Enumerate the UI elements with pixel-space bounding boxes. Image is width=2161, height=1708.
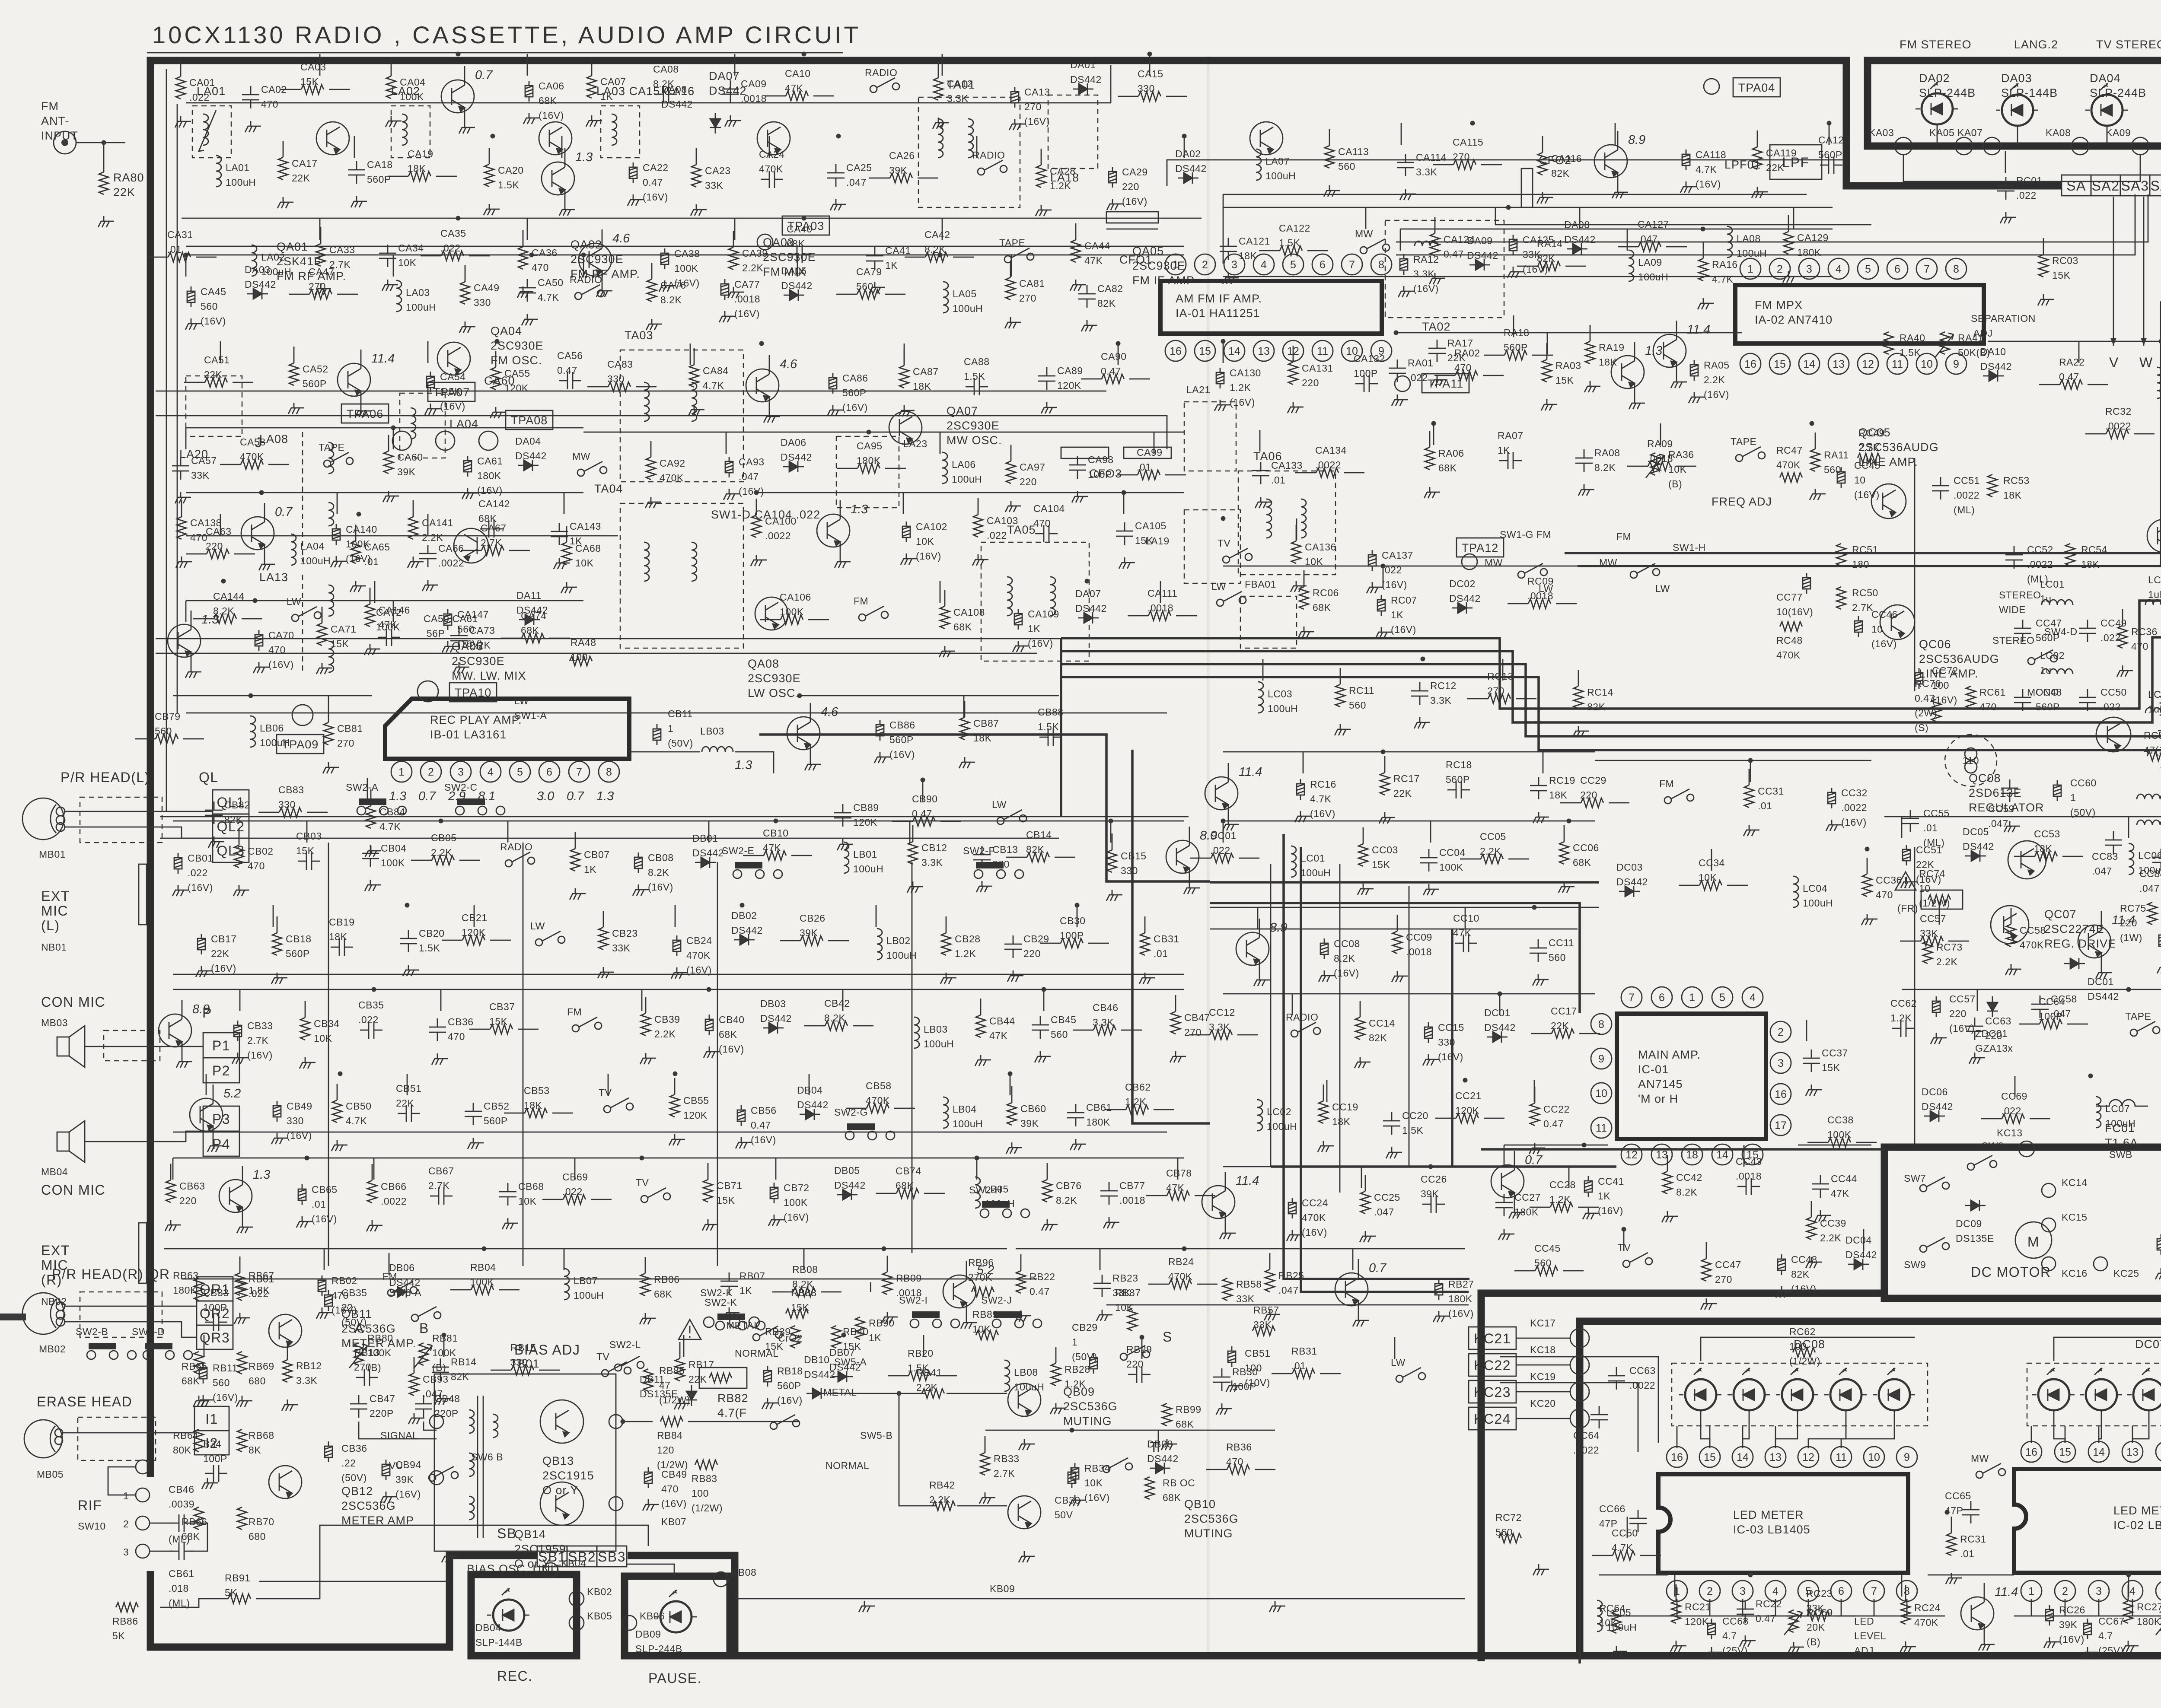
stereo LED box bbox=[1868, 60, 2161, 146]
diode DB07 bbox=[832, 1371, 853, 1382]
ground CC44 bbox=[1815, 1210, 1831, 1221]
ground CC03 bbox=[1358, 884, 1374, 895]
capacitor CA109 bbox=[1014, 609, 1022, 630]
IC LED METER 02 box bbox=[2014, 1469, 2161, 1573]
svg-text:10: 10 bbox=[1921, 358, 1933, 370]
wire stub bbox=[389, 1253, 390, 1275]
junction bbox=[439, 819, 443, 824]
wire CB83 bbox=[258, 812, 279, 813]
capacitor CA57 bbox=[172, 457, 189, 480]
wire bot rail1 bbox=[182, 1279, 1037, 1280]
wire CB47 bbox=[1175, 995, 1176, 1011]
bus audio C1 bbox=[759, 735, 1210, 881]
cap CB46 bbox=[170, 1514, 193, 1532]
wire stub bbox=[1011, 255, 1012, 277]
wire hz upper r2 bbox=[1396, 194, 2135, 255]
wire LED DC08 drop bbox=[1808, 1410, 1846, 1448]
wire stub bbox=[427, 341, 429, 363]
wire CON MIC R bbox=[85, 1131, 203, 1142]
svg-text:2: 2 bbox=[1778, 1026, 1784, 1038]
resistor CA76 bbox=[647, 279, 657, 302]
resistor CC31 bbox=[1744, 785, 1754, 808]
wire LED DC07 drop bbox=[2132, 1410, 2149, 1443]
svg-text:0.7: 0.7 bbox=[418, 789, 437, 803]
svg-text:TV: TV bbox=[599, 1087, 612, 1098]
coil LA08col bbox=[328, 442, 334, 474]
terminal KA08 bbox=[2072, 137, 2089, 155]
pin 1 IC-03 bbox=[1667, 1581, 1687, 1601]
ground CA87 bbox=[899, 405, 915, 417]
wire stub bbox=[963, 696, 965, 717]
wire LED DC08 drop bbox=[1743, 1410, 1749, 1448]
wire CB74 bbox=[876, 1193, 896, 1194]
res RB85 bbox=[644, 1369, 653, 1391]
wire QA10 c bbox=[1676, 321, 1677, 340]
ground CC11 bbox=[1533, 974, 1549, 986]
svg-text:KC13: KC13 bbox=[1997, 1127, 2023, 1139]
terminal TPA11 bbox=[1395, 376, 1410, 391]
wire stub bbox=[683, 1335, 685, 1357]
elco CB35 bbox=[325, 1290, 332, 1311]
wire stub bbox=[1326, 1080, 1328, 1102]
wire CB14 bbox=[1006, 857, 1027, 858]
xtal CFO1 bbox=[1106, 212, 1158, 223]
coil TA05 bbox=[1007, 577, 1012, 616]
wire CC34 bbox=[1679, 885, 1699, 886]
wire stub bbox=[608, 1074, 609, 1095]
wire stub bbox=[797, 255, 798, 277]
LPF box bbox=[1770, 145, 1822, 179]
svg-text:REC.: REC. bbox=[497, 1668, 532, 1684]
wire CB71 bbox=[708, 1163, 709, 1180]
wire stub bbox=[427, 514, 429, 536]
res RC48 bbox=[1780, 622, 1802, 631]
cap CC49 bbox=[2079, 620, 2096, 642]
wire CA71 bbox=[322, 607, 323, 623]
wire CC31 bbox=[1749, 769, 1750, 785]
svg-text:SW2-F: SW2-F bbox=[963, 845, 995, 856]
svg-text:13: 13 bbox=[1833, 358, 1845, 370]
svg-text:SW2-I: SW2-I bbox=[899, 1295, 928, 1306]
pin 16 MAIN AMP bbox=[1770, 1084, 1791, 1104]
ground RA17 bbox=[1431, 375, 1447, 386]
resistor CA134 bbox=[1316, 468, 1339, 477]
pin 13 IC-03 bbox=[1765, 1447, 1786, 1467]
P/R HEAD(L) symbol bbox=[22, 798, 65, 840]
junction bbox=[1748, 758, 1753, 763]
wire meter bot bbox=[1608, 1616, 1945, 1617]
wire stub bbox=[1430, 821, 1431, 843]
ground RB01 bbox=[234, 1313, 250, 1324]
transistor QB12 bbox=[269, 1466, 302, 1498]
wire CA119 bbox=[1757, 130, 1758, 147]
junction bbox=[442, 1333, 446, 1338]
ground QB02 bbox=[176, 1056, 192, 1068]
terminal KB05 bbox=[569, 1616, 584, 1630]
coil TA06 bbox=[1266, 499, 1272, 538]
svg-text:ERASE HEAD: ERASE HEAD bbox=[37, 1394, 132, 1409]
ground CA131 bbox=[1288, 402, 1304, 413]
wire stub bbox=[1365, 207, 1367, 229]
pin 10 AM FM IF bbox=[1342, 340, 1362, 361]
dashed LA01 bbox=[192, 106, 231, 158]
connector KC22 bbox=[1469, 1354, 1516, 1376]
junction bbox=[249, 693, 253, 698]
wire RB25 bbox=[1269, 1253, 1271, 1269]
wire stub bbox=[1077, 905, 1078, 927]
resistor CA31 bbox=[168, 252, 191, 262]
wire RC09 bbox=[1508, 603, 1528, 604]
wire CA131 bbox=[1293, 346, 1294, 362]
coil LA02 bbox=[402, 114, 407, 145]
capacitor CA98 bbox=[1069, 456, 1086, 479]
svg-text:I: I bbox=[869, 1279, 873, 1295]
sw SW7 bbox=[1920, 1177, 1949, 1192]
svg-text:1: 1 bbox=[1689, 992, 1695, 1004]
terminal KB02 bbox=[569, 1591, 584, 1606]
wire meter bot2 bbox=[2014, 1616, 2161, 1617]
junction bbox=[391, 426, 396, 430]
wire rec out bbox=[629, 751, 700, 753]
switch SW03 bbox=[1004, 248, 1034, 263]
diode DB04 bbox=[800, 1109, 820, 1120]
ground RC06 bbox=[1298, 627, 1314, 638]
resistor CA83 bbox=[608, 382, 631, 391]
resistor CA106 bbox=[781, 615, 803, 624]
coil LB03 bbox=[702, 747, 733, 752]
svg-text:11: 11 bbox=[1596, 1122, 1607, 1134]
resistor CC28 bbox=[1550, 1202, 1573, 1212]
ground CA66 bbox=[422, 580, 438, 591]
svg-text:CC32.0022(16V): CC32.0022(16V) bbox=[1841, 787, 1868, 828]
wire QA06 e bbox=[769, 397, 770, 411]
junction bbox=[1182, 1247, 1187, 1251]
svg-text:METAL: METAL bbox=[823, 1387, 857, 1398]
pin 1 MAIN AMP bbox=[1682, 987, 1702, 1008]
wire stub bbox=[1262, 659, 1264, 681]
pin 6 AM FM IF bbox=[1312, 254, 1333, 275]
svg-text:KB07: KB07 bbox=[661, 1516, 686, 1527]
wire stub bbox=[876, 905, 877, 927]
junction bbox=[1865, 847, 1870, 852]
FM ANT jack bbox=[54, 131, 76, 154]
junction bbox=[1070, 1428, 1074, 1433]
svg-text:P/R HEAD(R) QR: P/R HEAD(R) QR bbox=[52, 1266, 170, 1282]
wire stub bbox=[734, 218, 736, 240]
wire CB84 bbox=[370, 789, 372, 806]
svg-text:RADIO: RADIO bbox=[865, 67, 897, 78]
wire hz upper r3 bbox=[1167, 160, 1845, 186]
svg-text:MB01: MB01 bbox=[39, 849, 66, 860]
ground RB23 bbox=[1096, 1310, 1112, 1321]
res RB39 bbox=[790, 1326, 800, 1348]
elco CC67 bbox=[2084, 1619, 2091, 1639]
capacitor CB65 bbox=[298, 1184, 306, 1205]
ground CB61 bbox=[1070, 1139, 1086, 1150]
wire QC07 e bbox=[2101, 953, 2102, 967]
wire bias out bbox=[623, 1421, 653, 1422]
CON MIC L symbol bbox=[57, 1026, 85, 1067]
resistor CB42 bbox=[825, 1021, 848, 1031]
res RB83 bbox=[695, 1460, 717, 1469]
terminal KB08 bbox=[714, 1572, 728, 1587]
svg-text:SW2-G: SW2-G bbox=[834, 1107, 868, 1118]
ground CB33 bbox=[232, 1053, 248, 1064]
svg-text:13: 13 bbox=[1769, 1451, 1782, 1463]
bus staircase A1 bbox=[1061, 601, 2161, 709]
pin 4 AM FM IF bbox=[1253, 254, 1274, 275]
ground CA04 bbox=[386, 116, 402, 127]
ground CB47 bbox=[1170, 1051, 1186, 1062]
dashed TA01 bbox=[918, 97, 1020, 207]
junction bbox=[482, 1247, 487, 1251]
resistor CB34 bbox=[300, 1018, 310, 1040]
svg-text:SA2: SA2 bbox=[2092, 178, 2120, 194]
svg-text:6: 6 bbox=[1659, 992, 1665, 1004]
transformer TB01 secondary bbox=[493, 1414, 498, 1438]
LED DB04 bbox=[487, 1588, 529, 1631]
svg-text:8.9: 8.9 bbox=[192, 1002, 210, 1016]
resistor CA119 bbox=[1753, 147, 1762, 169]
wire stub bbox=[1223, 341, 1224, 363]
ground RB17 bbox=[674, 1398, 690, 1409]
resistor CB47 bbox=[1171, 1011, 1180, 1034]
resistor CA15 bbox=[1138, 92, 1161, 101]
svg-text:MB02: MB02 bbox=[39, 1343, 66, 1355]
ground CA60 bbox=[383, 491, 399, 502]
svg-text:0.7: 0.7 bbox=[475, 68, 493, 82]
wire CB07 bbox=[575, 832, 576, 849]
resistor CB44 bbox=[976, 1015, 985, 1037]
pin 11 AM FM IF bbox=[1312, 340, 1333, 361]
svg-text:RB18560P(16V): RB18560P(16V) bbox=[777, 1365, 803, 1406]
wire RA19 bbox=[1590, 325, 1591, 341]
ground RB22 bbox=[1015, 1310, 1031, 1322]
terminal KC13 bbox=[2019, 1141, 2034, 1157]
cap CC83 bbox=[2105, 831, 2122, 854]
label TPA11 box bbox=[1422, 374, 1469, 393]
coil LC02 bbox=[2042, 669, 2073, 674]
wire CA95 bbox=[837, 468, 857, 469]
EXT MIC R jack bbox=[139, 1223, 147, 1283]
resistor CA35 bbox=[441, 251, 464, 261]
wire stub bbox=[904, 344, 905, 365]
terminal KA05 bbox=[1955, 137, 1973, 155]
switch SW25 bbox=[2130, 1021, 2160, 1036]
transistor QA07 bbox=[817, 514, 850, 547]
ground CA143 bbox=[554, 558, 570, 569]
wire CB79 bbox=[135, 738, 156, 740]
svg-text:CON MIC: CON MIC bbox=[41, 994, 105, 1010]
wire CB90 bbox=[892, 821, 913, 822]
sw T muting bbox=[1103, 1458, 1132, 1473]
wire tone v2 bbox=[1339, 864, 1341, 1193]
wire QB07 e bbox=[1358, 1301, 1359, 1315]
coil LA02 bbox=[252, 245, 257, 276]
capacitor RB18 bbox=[764, 1366, 771, 1387]
wire audio rail2 bbox=[160, 838, 1059, 839]
junction bbox=[882, 1247, 886, 1251]
res RB90 bbox=[855, 1317, 865, 1339]
label TPA03 box bbox=[782, 216, 829, 235]
wire rail bbox=[164, 1248, 1007, 1250]
wire stub bbox=[1361, 1167, 1362, 1188]
wire CA106 bbox=[760, 619, 781, 620]
transistor QA02 bbox=[539, 122, 572, 155]
dashed MB01 bbox=[80, 797, 162, 843]
cap CC50 bbox=[2079, 689, 2096, 711]
wire stub bbox=[204, 1335, 205, 1357]
junction bbox=[338, 1072, 343, 1076]
wire stub bbox=[1750, 760, 1751, 782]
switch SW17 bbox=[1291, 1022, 1320, 1037]
resistor RB09 bbox=[883, 1272, 892, 1295]
svg-text:TAPE: TAPE bbox=[1731, 436, 1756, 447]
resistor RA09 bbox=[1648, 461, 1670, 471]
connector QL1 bbox=[213, 790, 249, 814]
ground CB44 bbox=[975, 1055, 991, 1066]
wire CA63 bbox=[186, 553, 207, 555]
coil TA04 bbox=[644, 542, 649, 581]
wire rail bbox=[1902, 989, 2161, 990]
svg-text:4: 4 bbox=[488, 766, 494, 778]
capacitor RA12 bbox=[1400, 254, 1408, 275]
res RC64 bbox=[1612, 1611, 1621, 1633]
svg-text:SB: SB bbox=[497, 1526, 517, 1541]
wire stub bbox=[185, 428, 187, 449]
capacitor RC26 bbox=[2046, 1605, 2053, 1625]
ground CC63 bbox=[1969, 1053, 1985, 1064]
wire rail bbox=[1223, 993, 1595, 995]
svg-text:8: 8 bbox=[1953, 263, 1959, 275]
resistor CA122 bbox=[1280, 246, 1302, 255]
pin 16 IC-03 bbox=[1667, 1447, 1687, 1467]
wire stub bbox=[1257, 907, 1259, 929]
EXT MIC L jack bbox=[139, 864, 147, 925]
arrow V bbox=[2113, 197, 2114, 346]
svg-text:LA23: LA23 bbox=[903, 438, 928, 449]
wire CC50 bbox=[1592, 1555, 1613, 1556]
ground CB66 bbox=[367, 1220, 382, 1231]
svg-text:FM: FM bbox=[567, 1006, 582, 1018]
diode DC03 bbox=[1619, 886, 1640, 897]
svg-text:0.7: 0.7 bbox=[275, 505, 293, 519]
svg-text:7: 7 bbox=[1629, 992, 1635, 1004]
svg-text:CB24470K(16V): CB24470K(16V) bbox=[686, 935, 712, 976]
pin 3 AM FM IF bbox=[1224, 254, 1245, 275]
wire cassette v2 bbox=[523, 843, 524, 1266]
coil LA10 bbox=[2157, 367, 2161, 398]
capacitor CA08 bbox=[655, 86, 677, 103]
resistor CA23 bbox=[692, 165, 701, 187]
svg-text:SW8: SW8 bbox=[1982, 1140, 2004, 1151]
IC REC PLAY AMP box bbox=[385, 699, 629, 759]
LED row DC07 dashed box bbox=[2027, 1363, 2161, 1426]
coil LA04 bbox=[291, 534, 296, 565]
wire CA97 bbox=[1010, 445, 1012, 461]
svg-text:V: V bbox=[2109, 355, 2119, 370]
wire cassette h1 bbox=[173, 974, 1184, 975]
wire QA04 c bbox=[360, 350, 362, 369]
wire CA60 bbox=[388, 435, 389, 451]
wire head R2 bbox=[64, 1322, 197, 1337]
res RB84 bbox=[660, 1417, 683, 1426]
wire CA136 bbox=[1296, 525, 1297, 541]
wire stub bbox=[1177, 1158, 1179, 1180]
gnd TB01 bbox=[442, 1551, 458, 1562]
resistor CA103 bbox=[973, 515, 983, 537]
res RC61 bbox=[1966, 686, 1976, 709]
wire stub bbox=[2128, 1575, 2129, 1597]
svg-text:14: 14 bbox=[1803, 358, 1815, 370]
transistor QB05 bbox=[787, 717, 820, 750]
capacitor CA88 bbox=[966, 378, 988, 395]
pin 5 MAIN AMP bbox=[1712, 987, 1733, 1008]
svg-text:12: 12 bbox=[1626, 1149, 1638, 1161]
wire RA14 bbox=[1517, 266, 1538, 267]
gnd kc strip bbox=[1533, 1564, 1549, 1575]
res RB87 bbox=[1128, 1308, 1137, 1331]
capacitor RC22 bbox=[1737, 1600, 1754, 1623]
transistor QA07 bbox=[889, 411, 922, 444]
wire ic3 pins down bbox=[1677, 1599, 1678, 1616]
ground CA02 bbox=[245, 121, 261, 132]
wire CA10 bbox=[765, 95, 786, 97]
wire if rail2 bbox=[1223, 194, 1224, 264]
capacitor RA17 bbox=[1428, 340, 1446, 362]
dashed TA06 bbox=[1238, 471, 1335, 575]
pin 4 FM MPX bbox=[1828, 258, 1849, 279]
wire QA06 c bbox=[769, 355, 770, 374]
ground CB68 bbox=[502, 1218, 518, 1229]
wire CA55 bbox=[495, 351, 497, 367]
svg-text:2: 2 bbox=[1707, 1585, 1713, 1597]
resistor CB37 bbox=[490, 1024, 513, 1034]
svg-text:RB27180K(16V): RB27180K(16V) bbox=[1448, 1279, 1474, 1319]
pin 4 IC-02 bbox=[2122, 1581, 2143, 1601]
svg-text:2: 2 bbox=[2062, 1585, 2068, 1597]
wire CA124 bbox=[1434, 217, 1436, 233]
ground QB07 bbox=[1353, 1315, 1369, 1326]
res RB68 bbox=[237, 1429, 247, 1452]
res RB65 bbox=[194, 1352, 204, 1374]
junction bbox=[1042, 987, 1046, 992]
diode DB05 bbox=[837, 1189, 857, 1200]
resistor CB10 bbox=[764, 851, 786, 860]
pin 3 IC-03 bbox=[1732, 1581, 1753, 1601]
ground CC09 bbox=[1392, 971, 1408, 982]
ground CA38 bbox=[659, 280, 675, 292]
wire RB01 bbox=[239, 1256, 241, 1273]
resistor CA81 bbox=[1006, 277, 1015, 300]
wire bias2 bbox=[424, 1422, 437, 1430]
wire CC06 bbox=[1564, 825, 1565, 842]
wire main l bbox=[1210, 907, 1599, 908]
bus audio C2 bbox=[1132, 750, 1210, 1123]
svg-text:11.4: 11.4 bbox=[1687, 323, 1710, 337]
wire rail bbox=[583, 432, 1184, 433]
wire muting2 bbox=[947, 1393, 1007, 1394]
wire stub bbox=[319, 54, 321, 76]
resistor CB15 bbox=[1107, 850, 1117, 872]
diode DC04 bbox=[1848, 1259, 1869, 1270]
junction bbox=[867, 430, 871, 435]
svg-text:FBA01: FBA01 bbox=[1245, 579, 1276, 590]
wire stub bbox=[474, 905, 475, 927]
wire SB3 right bbox=[627, 1564, 674, 1576]
wire RC27 bbox=[2128, 1584, 2129, 1601]
capacitor CA54 bbox=[427, 372, 434, 392]
